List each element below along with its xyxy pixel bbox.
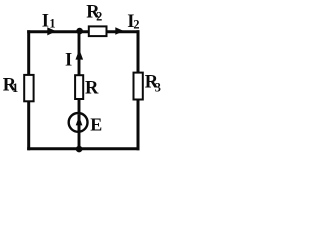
resistor R1 — [24, 75, 33, 101]
svg-text:I: I — [65, 51, 72, 71]
EMF source E — [69, 113, 88, 132]
node top junction — [76, 28, 83, 35]
svg-text:1: 1 — [49, 16, 55, 30]
node bottom junction — [76, 146, 83, 153]
svg-text:1: 1 — [12, 81, 18, 95]
current arrow I (middle) — [76, 50, 84, 60]
svg-text:2: 2 — [96, 9, 102, 23]
svg-text:I: I — [42, 12, 49, 32]
wire middle branch — [78, 32, 81, 149]
wire left — [27, 30, 30, 150]
current arrow I2 — [115, 27, 124, 35]
svg-text:E: E — [90, 115, 102, 135]
svg-text:3: 3 — [155, 81, 161, 95]
resistor R2 — [89, 26, 107, 36]
resistor R (middle) — [75, 75, 83, 99]
wire bottom — [27, 147, 139, 150]
svg-text:R: R — [85, 78, 99, 98]
current arrow I1 — [47, 27, 56, 35]
svg-text:2: 2 — [133, 18, 139, 32]
resistor R3 — [134, 73, 143, 100]
wire top — [27, 30, 139, 33]
wire right — [137, 30, 140, 150]
